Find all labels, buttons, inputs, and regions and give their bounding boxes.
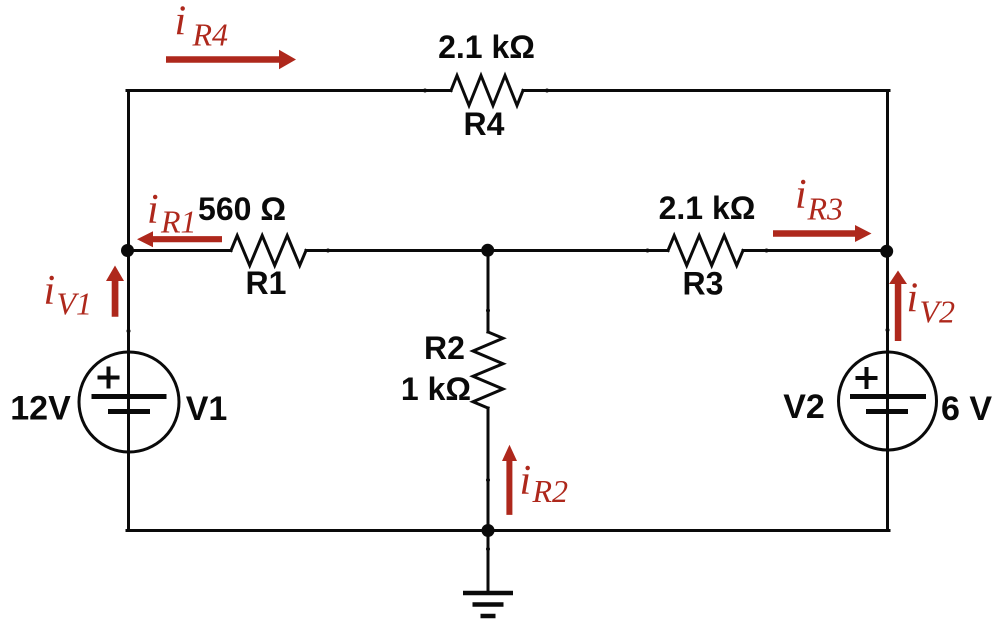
terminal dot R2 top bbox=[486, 309, 490, 313]
V1 battery short plate bbox=[108, 409, 150, 414]
svg-text:2.1 kΩ: 2.1 kΩ bbox=[659, 190, 756, 226]
current arrow iR1 bbox=[137, 231, 222, 247]
ground bar 1 bbox=[463, 591, 513, 596]
wire bottom rail bbox=[127, 529, 889, 532]
svg-text:R3: R3 bbox=[807, 191, 844, 227]
V2 plus sign bbox=[856, 367, 878, 389]
voltage source V1 circle bbox=[79, 352, 179, 452]
svg-text:V2: V2 bbox=[920, 294, 956, 330]
svg-text:R1: R1 bbox=[160, 204, 197, 240]
svg-text:R3: R3 bbox=[683, 266, 724, 302]
wire center branch lower bbox=[487, 408, 490, 531]
terminal dot R4 right bbox=[545, 89, 549, 93]
terminal dot ground stem bbox=[486, 547, 490, 551]
current arrow iV2 bbox=[889, 271, 907, 342]
svg-text:R1: R1 bbox=[246, 265, 287, 301]
svg-text:V1: V1 bbox=[57, 285, 93, 321]
terminal dot R2 bottom bbox=[486, 478, 490, 482]
wire middle rail right segment bbox=[743, 249, 889, 252]
terminal dot R3 left bbox=[646, 249, 650, 253]
wire right rail bbox=[886, 91, 889, 531]
current arrow iR3 bbox=[773, 225, 872, 242]
terminal dot R4 left bbox=[423, 89, 427, 93]
svg-text:V1: V1 bbox=[186, 390, 228, 428]
ground bar 3 bbox=[481, 614, 496, 619]
svg-text:V2: V2 bbox=[783, 388, 825, 426]
terminal dot R1 right bbox=[326, 249, 330, 253]
resistor R3 zigzag bbox=[668, 236, 743, 266]
wire center branch upper bbox=[487, 251, 490, 333]
voltage source V2 circle bbox=[839, 352, 937, 450]
svg-text:560 Ω: 560 Ω bbox=[198, 191, 286, 227]
svg-text:1 kΩ: 1 kΩ bbox=[401, 371, 471, 407]
svg-text:i: i bbox=[44, 268, 56, 314]
ground bar 2 bbox=[473, 602, 504, 607]
terminal dot right rail bbox=[886, 328, 890, 332]
V1 plus sign bbox=[98, 367, 120, 389]
wire ground stem bbox=[487, 531, 490, 594]
svg-text:R2: R2 bbox=[424, 330, 465, 366]
svg-text:R2: R2 bbox=[532, 473, 569, 509]
V2 battery long plate bbox=[850, 394, 926, 399]
current arrow iV1 bbox=[106, 266, 124, 317]
resistor R4 zigzag bbox=[451, 76, 523, 106]
terminal dot R3 right bbox=[765, 249, 769, 253]
resistor R2 zigzag bbox=[473, 332, 503, 408]
current arrow iR2 bbox=[502, 445, 517, 515]
svg-text:i: i bbox=[520, 458, 532, 504]
node junction left (V1 / R1 / R4) bbox=[121, 244, 134, 257]
current arrow iR4 bbox=[166, 50, 296, 69]
wire top rail left segment bbox=[127, 89, 451, 92]
node junction center top (R1 / R2 / R3) bbox=[481, 244, 494, 257]
svg-text:12V: 12V bbox=[10, 390, 71, 428]
wire top rail right segment bbox=[523, 89, 889, 92]
svg-text:i: i bbox=[795, 172, 807, 218]
svg-text:R4: R4 bbox=[192, 16, 229, 52]
V2 battery short plate bbox=[866, 409, 908, 414]
svg-text:i: i bbox=[175, 0, 187, 45]
V1 battery long plate bbox=[92, 394, 167, 399]
wire left rail bbox=[127, 91, 130, 531]
wire middle rail center segment bbox=[306, 249, 668, 252]
svg-text:i: i bbox=[907, 276, 919, 322]
svg-text:i: i bbox=[147, 187, 159, 233]
node junction bottom (ground net) bbox=[482, 524, 495, 537]
terminal dot left rail bbox=[127, 329, 131, 333]
node junction right (V2 / R3 / R4) bbox=[880, 245, 893, 258]
resistor R1 zigzag bbox=[231, 236, 306, 266]
svg-text:6 V: 6 V bbox=[941, 390, 992, 428]
wire middle rail left segment bbox=[127, 249, 231, 252]
svg-text:2.1 kΩ: 2.1 kΩ bbox=[438, 29, 535, 65]
svg-text:R4: R4 bbox=[464, 106, 505, 142]
